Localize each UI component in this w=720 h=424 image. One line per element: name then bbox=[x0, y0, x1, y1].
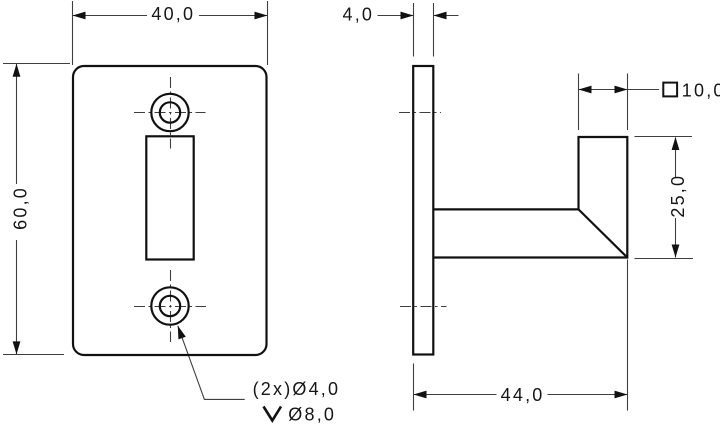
svg-text:25,0: 25,0 bbox=[668, 174, 688, 218]
svg-text:4,0: 4,0 bbox=[342, 4, 374, 24]
svg-text:44,0: 44,0 bbox=[501, 385, 545, 405]
svg-text:60,0: 60,0 bbox=[11, 186, 31, 230]
svg-text:10,0: 10,0 bbox=[682, 80, 720, 100]
svg-text:40,0: 40,0 bbox=[151, 4, 195, 24]
svg-text:Ø8,0: Ø8,0 bbox=[288, 404, 336, 424]
svg-text:(2x)Ø4,0: (2x)Ø4,0 bbox=[253, 379, 341, 399]
